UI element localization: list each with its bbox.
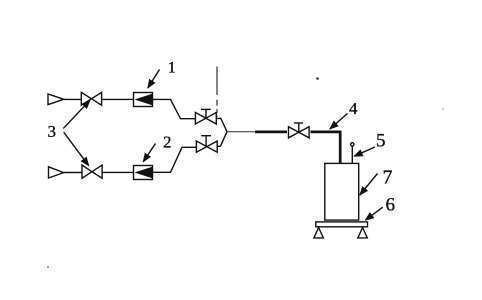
leg right (358, 228, 368, 238)
leader arrow 3 upper (63, 100, 90, 128)
valve (bowtie) bottom-left, item 3b (82, 165, 92, 178)
node junction wire (thin) (227, 131, 256, 133)
regulator/arrestor 2 (box) (134, 166, 153, 180)
svg-text:4: 4 (349, 99, 358, 118)
leader arrow 3 lower (64, 132, 89, 166)
regulator/arrestor 1 (box) (134, 93, 153, 107)
leader arrow 4 (330, 114, 348, 130)
source triangle upper-left (48, 94, 64, 105)
wire regulator 1 to valve stem top (153, 99, 196, 118)
wire source to valve (top branch) (64, 98, 81, 100)
leader arrow 6 (365, 207, 383, 220)
wire valve to regulator 1 (102, 98, 134, 100)
svg-text:3: 3 (48, 122, 57, 141)
speck dot (316, 77, 319, 80)
leader arrow 2 (143, 144, 155, 162)
leader arrow 7 (360, 174, 378, 196)
stem valve upper-middle (205, 109, 207, 118)
svg-text:5: 5 (376, 131, 386, 152)
wire valve to junction (217, 132, 227, 147)
wire valve to junction (216, 118, 227, 131)
valve (bowtie) top-left, item 3a (81, 92, 91, 105)
wire source to valve (bottom branch) (64, 172, 82, 174)
stem valve right (shutoff) (298, 123, 300, 132)
thick pipe 4 elbow down (311, 132, 341, 164)
speck dot lower-left (47, 266, 49, 268)
svg-text:6: 6 (386, 195, 396, 216)
leg left (314, 228, 324, 238)
vessel 7 (325, 163, 359, 220)
wire regulator 2 to valve (153, 147, 197, 172)
stem valve lower-middle (205, 136, 207, 147)
svg-text:1: 1 (168, 60, 176, 77)
thick pipe to valve 4 (255, 131, 287, 134)
svg-text:7: 7 (383, 167, 393, 189)
base plate 6 (316, 222, 368, 227)
speck dot right (442, 108, 444, 110)
stem of fitting 5 (351, 147, 353, 165)
wire valve to regulator 2 (102, 171, 133, 173)
leader arrow 5 (354, 147, 375, 156)
centerline dashed vertical (216, 67, 218, 118)
svg-text:2: 2 (163, 132, 172, 151)
source triangle lower-left (49, 167, 64, 178)
leader arrow 1 (148, 70, 160, 89)
fitting circle item 5 (351, 143, 354, 146)
